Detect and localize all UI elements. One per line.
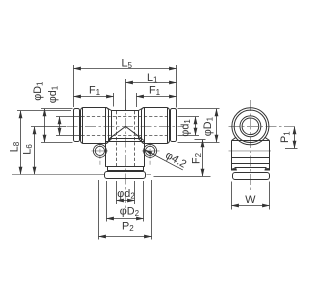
svg-text:P2: P2 bbox=[122, 221, 134, 234]
svg-text:φd1: φd1 bbox=[180, 119, 193, 137]
svg-text:W: W bbox=[245, 194, 256, 206]
svg-text:φD1: φD1 bbox=[32, 81, 45, 101]
svg-text:L5: L5 bbox=[122, 58, 133, 71]
svg-text:F2: F2 bbox=[190, 152, 203, 164]
svg-text:φD1: φD1 bbox=[202, 116, 215, 136]
svg-text:L8: L8 bbox=[8, 141, 21, 152]
svg-text:F1: F1 bbox=[89, 84, 101, 97]
svg-text:L6: L6 bbox=[22, 144, 35, 155]
svg-text:φD2: φD2 bbox=[120, 206, 140, 219]
svg-text:φd2: φd2 bbox=[117, 188, 135, 201]
svg-text:φ4.2: φ4.2 bbox=[163, 149, 188, 170]
svg-text:F1: F1 bbox=[149, 84, 161, 97]
svg-text:P1: P1 bbox=[279, 131, 292, 143]
svg-text:L1: L1 bbox=[147, 72, 158, 85]
svg-text:φd1: φd1 bbox=[47, 85, 60, 103]
